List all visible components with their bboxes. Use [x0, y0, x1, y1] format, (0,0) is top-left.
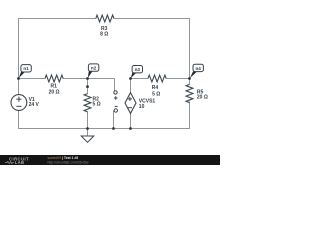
svg-text:n1: n1: [23, 66, 29, 71]
svg-text:5 Ω: 5 Ω: [152, 91, 160, 97]
svg-text:n4: n4: [196, 66, 202, 71]
svg-text:http://circuitlab.com/c5xr5w: http://circuitlab.com/c5xr5w: [48, 160, 89, 164]
svg-text:10: 10: [139, 104, 145, 110]
svg-text:R4: R4: [152, 85, 159, 91]
svg-text:5 Ω: 5 Ω: [93, 102, 101, 108]
svg-text:n3: n3: [135, 67, 141, 72]
svg-text:20 Ω: 20 Ω: [49, 89, 60, 95]
svg-text:8 Ω: 8 Ω: [100, 32, 108, 38]
svg-text:n2: n2: [91, 66, 97, 71]
svg-text:24 V: 24 V: [29, 102, 40, 108]
svg-text:20 Ω: 20 Ω: [197, 95, 208, 101]
svg-text:LAB: LAB: [15, 160, 25, 165]
